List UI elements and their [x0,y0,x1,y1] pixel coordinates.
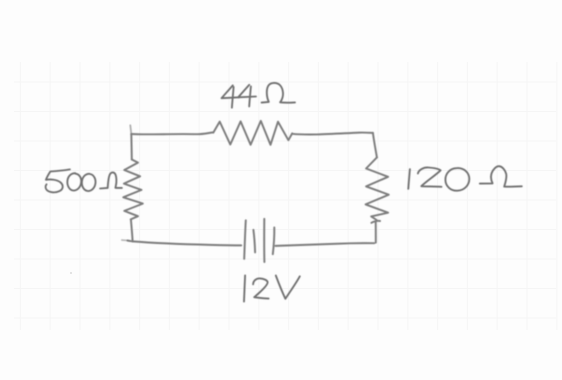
wire left vertical upper [130,134,133,159]
label 44ohm: digit 4 stem [232,87,234,108]
wire left vertical lower [131,220,133,242]
wire bottom-left horizontal [127,241,241,246]
wire bottom-right horizontal [276,243,375,246]
battery V1 plate long left [244,220,246,258]
resistor R3 120ohm (right zigzag) [366,157,389,220]
paper speck [70,272,72,274]
battery V1 plate short left [253,230,255,253]
label 120ohm: omega symbol [480,166,522,187]
label 44ohm: digit 4 [222,85,240,98]
resistor R1 44ohm (top zigzag) [213,121,292,145]
wire right vertical upper [373,133,377,158]
label 120ohm: digit 1 [408,169,410,189]
label 12V: digit 2 [253,278,269,298]
label 44ohm: omega symbol [262,83,295,103]
wire bottom-left faint tail [122,239,128,241]
wire top-right horizontal [292,133,373,135]
wire top-left horizontal [131,132,213,134]
battery V1 plate long right [263,219,265,262]
label 500ohm: first digit 0 [67,173,81,190]
label 120ohm: digit 2 [418,167,442,186]
label 12V: letter V [276,276,300,299]
label 120ohm: digit 0 [445,168,469,191]
wire right vertical lower [375,222,377,243]
label 500ohm: second digit 0 [82,174,96,191]
junction tick below right resistor [371,221,380,223]
label 44ohm: second digit 4 stem [249,86,251,106]
battery V1 plate short right [273,228,275,255]
graph paper grid (decorative) [14,62,557,330]
resistor R2 500ohm (left zigzag) [123,160,143,220]
label 500ohm: small omega [100,172,122,188]
label 500ohm: digit 5 [46,169,70,192]
label 44ohm: second digit 4 [238,85,256,98]
node A (top-left corner tick) [130,125,131,134]
label 12V: digit 1 [244,275,245,301]
